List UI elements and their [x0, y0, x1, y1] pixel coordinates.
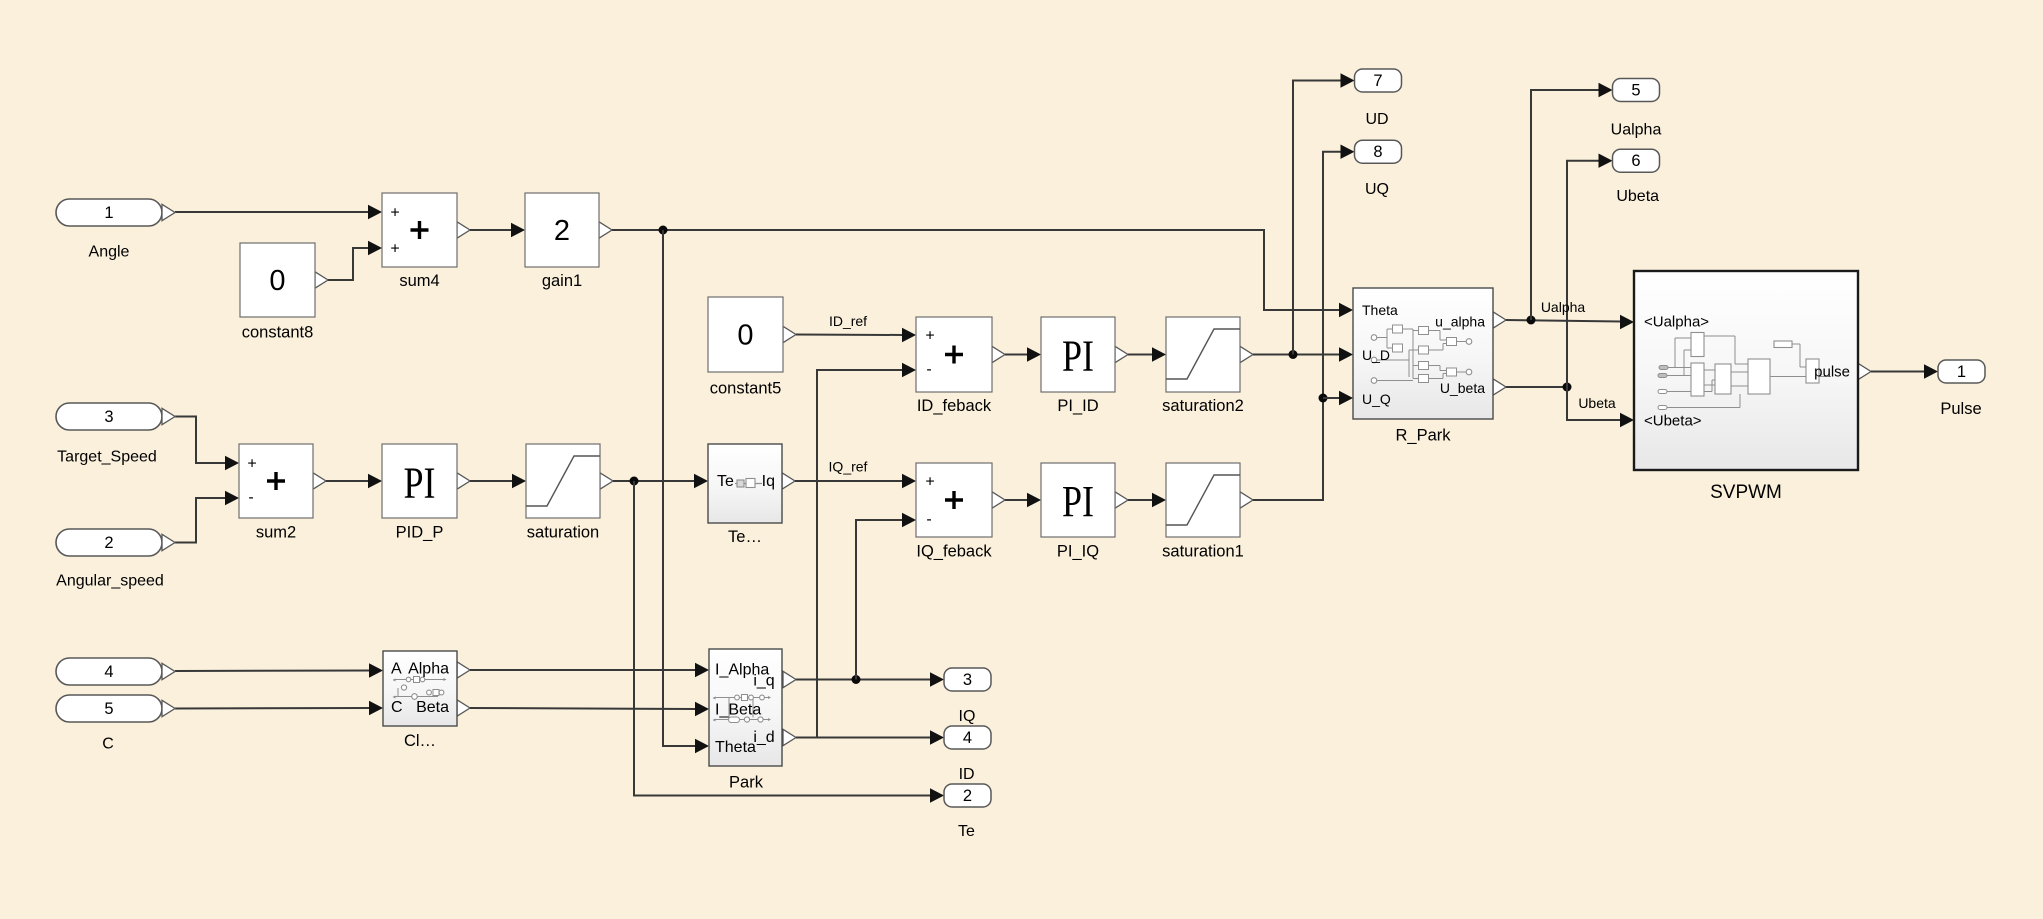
- svg-text:4: 4: [104, 663, 113, 681]
- svg-text:PI_IQ: PI_IQ: [1057, 543, 1099, 561]
- svg-text:5: 5: [104, 700, 113, 718]
- svg-text:Park: Park: [729, 774, 764, 792]
- svg-text:PI: PI: [404, 459, 436, 508]
- svg-text:A: A: [391, 661, 402, 678]
- svg-text:Target_Speed: Target_Speed: [57, 449, 157, 466]
- svg-text:+: +: [925, 328, 934, 345]
- svg-text:C: C: [391, 699, 403, 716]
- svg-text:i_q: i_q: [753, 673, 774, 690]
- svg-text:IQ_ref: IQ_ref: [829, 459, 868, 475]
- svg-text:PI: PI: [1062, 477, 1094, 526]
- svg-text:sum4: sum4: [399, 272, 439, 290]
- svg-text:-: -: [248, 489, 253, 506]
- svg-text:pulse: pulse: [1814, 364, 1850, 381]
- svg-text:Cl…: Cl…: [404, 732, 436, 750]
- svg-text:I_Beta: I_Beta: [715, 702, 761, 719]
- svg-text:constant8: constant8: [242, 324, 314, 342]
- svg-text:Ubeta: Ubeta: [1578, 395, 1616, 411]
- svg-text:Beta: Beta: [416, 699, 449, 716]
- svg-text:-: -: [926, 361, 931, 378]
- svg-text:Te…: Te…: [728, 528, 762, 546]
- svg-text:5: 5: [1631, 82, 1640, 100]
- svg-text:+: +: [247, 456, 256, 473]
- svg-text:Theta: Theta: [715, 739, 756, 756]
- svg-text:IQ: IQ: [959, 708, 976, 725]
- svg-text:4: 4: [963, 729, 972, 747]
- svg-text:saturation: saturation: [527, 524, 599, 542]
- svg-text:Ubeta: Ubeta: [1616, 188, 1659, 205]
- svg-text:1: 1: [1957, 363, 1966, 381]
- svg-text:3: 3: [104, 408, 113, 426]
- svg-text:Angular_speed: Angular_speed: [56, 573, 164, 590]
- svg-text:UQ: UQ: [1365, 181, 1389, 198]
- svg-text:gain1: gain1: [542, 272, 582, 290]
- svg-text:C: C: [102, 736, 114, 753]
- svg-text:+: +: [390, 241, 399, 258]
- svg-text:7: 7: [1373, 72, 1382, 90]
- svg-text:2: 2: [554, 215, 570, 247]
- svg-text:8: 8: [1373, 143, 1382, 161]
- svg-text:u_alpha: u_alpha: [1435, 314, 1485, 330]
- svg-text:ID: ID: [959, 766, 975, 783]
- svg-text:UD: UD: [1365, 111, 1388, 128]
- svg-text:ID_ref: ID_ref: [829, 313, 867, 329]
- svg-text:Angle: Angle: [89, 244, 130, 261]
- svg-text:saturation2: saturation2: [1162, 397, 1244, 415]
- svg-text:ID_feback: ID_feback: [917, 397, 992, 415]
- svg-text:2: 2: [104, 534, 113, 552]
- svg-text:3: 3: [963, 671, 972, 689]
- svg-text:U_Q: U_Q: [1362, 391, 1391, 407]
- svg-text:Ualpha: Ualpha: [1611, 121, 1662, 138]
- svg-text:Alpha: Alpha: [408, 661, 449, 678]
- svg-text:1: 1: [104, 204, 113, 222]
- svg-text:constant5: constant5: [710, 380, 782, 398]
- svg-text:2: 2: [963, 787, 972, 805]
- svg-text:R_Park: R_Park: [1395, 427, 1451, 445]
- svg-text:+: +: [390, 205, 399, 222]
- svg-text:Iq: Iq: [762, 473, 775, 490]
- svg-text:IQ_feback: IQ_feback: [916, 543, 992, 561]
- svg-text:PI_ID: PI_ID: [1057, 397, 1098, 415]
- svg-text:U_D: U_D: [1362, 347, 1390, 363]
- svg-text:6: 6: [1631, 152, 1640, 170]
- svg-text:Theta: Theta: [1362, 302, 1398, 318]
- svg-text:PID_P: PID_P: [396, 524, 444, 542]
- svg-text:<Ubeta>: <Ubeta>: [1644, 413, 1702, 430]
- svg-text:sum2: sum2: [256, 524, 296, 542]
- svg-text:0: 0: [737, 320, 753, 352]
- svg-text:Te: Te: [717, 473, 734, 490]
- svg-text:Ualpha: Ualpha: [1541, 299, 1586, 315]
- svg-text:0: 0: [269, 265, 285, 297]
- svg-text:-: -: [926, 511, 931, 528]
- svg-text:Te: Te: [958, 823, 975, 840]
- svg-text:PI: PI: [1062, 332, 1094, 381]
- svg-text:Pulse: Pulse: [1940, 400, 1981, 418]
- svg-text:U_beta: U_beta: [1440, 380, 1485, 396]
- svg-text:saturation1: saturation1: [1162, 543, 1244, 561]
- svg-text:SVPWM: SVPWM: [1710, 482, 1782, 503]
- svg-text:i_d: i_d: [753, 729, 774, 746]
- svg-text:+: +: [925, 474, 934, 491]
- svg-text:<Ualpha>: <Ualpha>: [1644, 314, 1709, 331]
